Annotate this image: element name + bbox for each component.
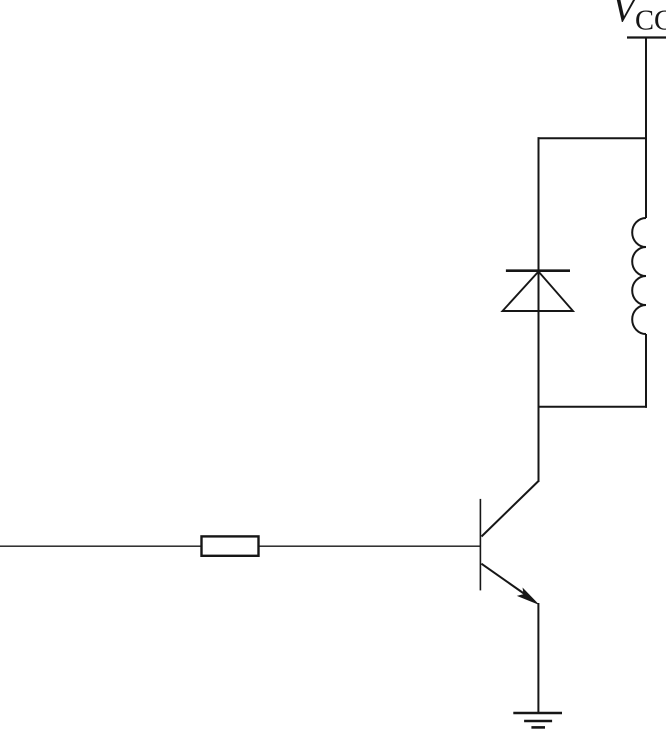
inductor L1 [632, 218, 646, 334]
power rail VCC bar [627, 36, 666, 38]
wire bottom rail (node B) [539, 406, 647, 408]
transistor Q1 base bar [479, 499, 481, 591]
wire emitter to ground [537, 603, 539, 713]
wire collector diagonal lead [482, 481, 539, 537]
wire base lead [0, 545, 480, 547]
node VCC label [612, 0, 666, 37]
wire inductor bottom to bottom rail [645, 334, 647, 408]
resistor R1 [202, 536, 259, 555]
ground [513, 713, 562, 727]
wire VCC bar to inductor top [645, 38, 647, 219]
diode D1 cathode bar [506, 269, 570, 272]
wire top rail (node A) [538, 137, 648, 139]
wire diode branch vertical [538, 137, 540, 482]
transistor Q1 emitter with arrow [481, 564, 526, 595]
diode D1 triangle [503, 272, 574, 312]
svg-text:CC: CC [635, 6, 666, 37]
